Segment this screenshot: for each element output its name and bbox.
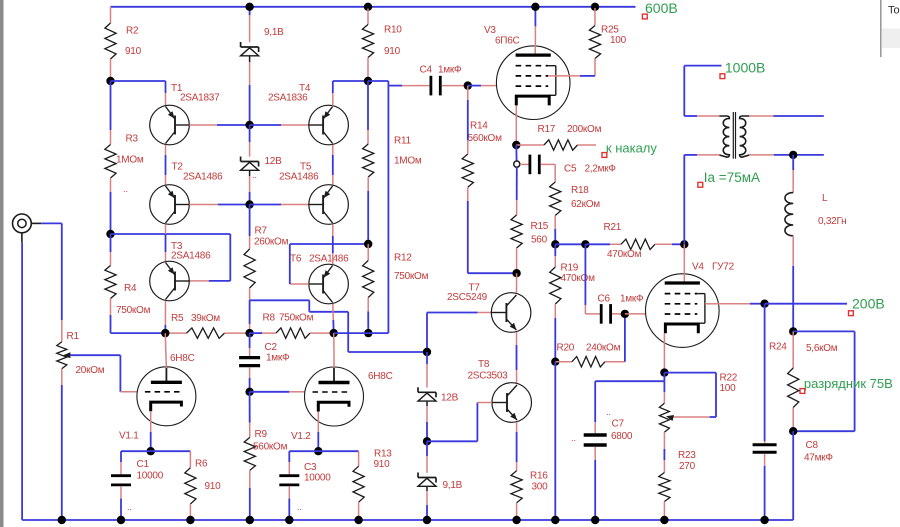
wire R23 bottom (663, 502, 665, 521)
wire zener4 bottom (426, 486, 428, 520)
resistor R18 (550, 182, 601, 216)
wire V4 g2 (705, 303, 765, 305)
svg-text:470кОм: 470кОм (607, 249, 642, 260)
current label Ia (698, 170, 760, 187)
wire R1 bottom (61, 369, 63, 520)
power label 1000В (720, 60, 765, 79)
svg-text:6П6С: 6П6С (495, 36, 520, 47)
tube V1.1 6Н8С (119, 353, 196, 442)
capacitor C7 (584, 419, 633, 446)
wire C8 bottom (764, 454, 766, 520)
wire ring to R15 (516, 167, 518, 215)
svg-text:200В: 200В (852, 296, 885, 312)
svg-text:100: 100 (610, 35, 627, 46)
wire R7 bottom + branch (250, 288, 427, 352)
svg-text:2SA1486: 2SA1486 (171, 251, 211, 262)
node C2/R9/V1.2 grid (245, 388, 253, 396)
wire R15 bottom (516, 248, 518, 273)
svg-text:2SC5249: 2SC5249 (447, 292, 488, 303)
wire V1.2 anode lead (333, 333, 335, 368)
node T7base/zener3 (423, 348, 431, 356)
svg-text:R4: R4 (124, 283, 137, 294)
svg-text:R3: R3 (126, 134, 139, 145)
svg-text:..: .. (252, 170, 257, 180)
node rail/R25 (591, 3, 599, 11)
wire cathode to C5 node (515, 145, 517, 161)
node rail/zener1 (245, 3, 253, 11)
wire terminal to R1 col (41, 223, 62, 341)
svg-text:..: .. (606, 407, 611, 417)
wire T1 base (189, 124, 249, 126)
svg-text:R8: R8 (263, 313, 276, 324)
node V1.1 anode (161, 329, 169, 337)
svg-text:To: To (888, 5, 900, 17)
svg-text:1МОм: 1МОм (394, 156, 422, 167)
wire R25 to g2 (548, 75, 595, 77)
resistor R10 (362, 9, 402, 78)
wire V1.1 anode lead (165, 333, 166, 368)
svg-text:1мкФ: 1мкФ (620, 294, 644, 305)
svg-text:560кОм: 560кОм (253, 442, 288, 453)
svg-text:2SA1486: 2SA1486 (279, 172, 319, 183)
wire C4 right lead (442, 85, 468, 87)
svg-text:R7: R7 (255, 226, 268, 237)
svg-text:R18: R18 (571, 185, 589, 196)
wire V4 grid lead (625, 313, 646, 315)
node zener2/T2T5 bases/R7 (245, 200, 253, 208)
resistor R24 (769, 331, 838, 431)
svg-text:R21: R21 (604, 222, 622, 233)
svg-text:750кОм: 750кОм (394, 271, 429, 282)
wire pot R22 top (663, 381, 665, 403)
svg-text:V3: V3 (484, 25, 496, 36)
svg-text:R22: R22 (720, 373, 738, 384)
wire anode row right (334, 332, 369, 334)
zener D3 12В (418, 387, 459, 403)
wire R14 top (467, 86, 469, 154)
wire V4 cathode lead (663, 333, 665, 372)
svg-text:910: 910 (125, 46, 142, 57)
wire cathode to C1 (121, 451, 151, 474)
svg-text:560кОм: 560кОм (468, 133, 503, 144)
wire R9 bottom (249, 470, 251, 520)
wire V1.2 grid (250, 391, 305, 393)
resistor R8 (263, 313, 314, 339)
side panel border (880, 0, 900, 57)
resistor R13 (353, 449, 392, 503)
wire R3 upper (110, 81, 112, 145)
svg-text:910: 910 (384, 46, 401, 57)
resistor R21 (585, 222, 672, 260)
node V1.1 cathode (147, 447, 155, 455)
svg-text:2,2мкФ: 2,2мкФ (585, 164, 617, 175)
wire R2 top lead (110, 7, 112, 23)
svg-text:47мкФ: 47мкФ (804, 453, 833, 464)
node zener1/zener2/T1T4 bases (245, 121, 253, 129)
wire C4 riser (368, 81, 388, 333)
inductor L 0.32Гн (785, 193, 846, 236)
svg-text:R13: R13 (374, 449, 392, 460)
wire T5 base left (250, 204, 309, 206)
wire zener3 top (426, 352, 428, 388)
node V4 anode/transformer (680, 240, 688, 248)
resistor R9 (244, 429, 287, 470)
wire to 200V (765, 303, 847, 305)
svg-text:C8: C8 (806, 440, 819, 451)
wire R1 wiper to V1.1 grid (70, 355, 137, 392)
svg-text:750кОм: 750кОм (279, 313, 314, 324)
wire R20 riser (624, 314, 626, 362)
wire T1-T2 (165, 145, 167, 185)
svg-text:2SA1836: 2SA1836 (268, 93, 308, 104)
wire T3 base net (111, 234, 231, 281)
svg-text:1мкФ: 1мкФ (438, 65, 462, 76)
wire R14 bottom to T7 (468, 187, 517, 273)
wire T8 emitter (516, 422, 518, 471)
resistor R14 (462, 121, 502, 188)
svg-text:T8: T8 (478, 359, 490, 370)
wire R11 top (367, 81, 369, 144)
svg-text:910: 910 (205, 481, 222, 492)
potentiometer R22 (659, 373, 737, 433)
tube V3 6П6С (484, 25, 570, 120)
svg-text:750кОм: 750кОм (116, 305, 151, 316)
wire R24 to rail (792, 431, 794, 520)
wire R18 bottom (554, 216, 556, 245)
svg-text:R10: R10 (384, 25, 402, 36)
node C4/R14/V3grid (464, 81, 472, 89)
node R3/R4/T3-base (106, 230, 114, 238)
wire R2-R3 node (110, 59, 112, 77)
svg-text:6800: 6800 (611, 431, 633, 442)
wire T4 collector top (333, 81, 368, 106)
svg-text:12В: 12В (441, 393, 459, 404)
wire V3 grid (468, 85, 497, 87)
wire T4-T5 (332, 145, 334, 185)
transistor T8 (468, 359, 532, 422)
node R12/anode row (364, 329, 372, 337)
svg-text:300: 300 (532, 482, 549, 493)
resistor R20 (555, 343, 625, 367)
svg-text:R25: R25 (601, 25, 619, 36)
wire C6 left (585, 244, 600, 314)
svg-text:R6: R6 (195, 459, 208, 470)
svg-text:..: .. (297, 502, 302, 512)
wire R19 bottom (554, 304, 556, 362)
wire zener2 bottom (249, 170, 251, 204)
svg-text:20кОм: 20кОм (76, 365, 105, 376)
wire T6 to anode node (332, 304, 335, 333)
node R18/R19 (551, 240, 559, 248)
svg-text:C6: C6 (598, 294, 611, 305)
resistor R11 (363, 136, 422, 178)
wire R8 left lead (250, 332, 276, 334)
wire zener3 bottom (426, 401, 428, 441)
wire R19 top (554, 244, 556, 267)
wire R19R20 to rail (554, 362, 556, 520)
svg-text:1мкФ: 1мкФ (266, 353, 290, 364)
wire row to C6 node (555, 243, 585, 245)
wire T6 base (290, 244, 368, 284)
wire C6 right (612, 313, 625, 315)
svg-text:L: L (822, 193, 828, 204)
power label 200В (849, 296, 885, 316)
svg-text:470кОм: 470кОм (561, 273, 596, 284)
svg-text:6Н8С: 6Н8С (170, 353, 195, 364)
resistor R15 (511, 215, 549, 248)
wire cathode to R13 (318, 451, 358, 466)
node rail/R10 (364, 3, 372, 11)
capacitor C6 (598, 294, 645, 324)
capacitor C3 (279, 462, 331, 485)
capacitor C2 (239, 342, 290, 366)
svg-text:9,1В: 9,1В (264, 27, 284, 38)
svg-text:R20: R20 (557, 343, 575, 354)
svg-text:270: 270 (679, 461, 696, 472)
wire R21 right (672, 243, 684, 245)
wire R4 lower (111, 299, 166, 334)
node secondary/L (789, 151, 797, 159)
wire zener4 top (426, 441, 428, 473)
tube V4 ГУ72 (646, 262, 735, 348)
resistor R25 (589, 8, 626, 76)
svg-text:C1: C1 (137, 459, 150, 470)
node V4 cathode (660, 368, 668, 376)
svg-text:C4: C4 (420, 65, 433, 76)
wire zener1 top lead (249, 7, 251, 42)
node R19/R20 (551, 358, 559, 366)
wire terminal pin right (31, 222, 41, 224)
zener D4 9,1В (418, 473, 463, 492)
svg-text:к накалу: к накалу (606, 141, 657, 156)
svg-text:10000: 10000 (137, 471, 164, 482)
transformer primary bottom wire (684, 155, 719, 244)
wire cathode to R6 (151, 451, 191, 468)
node R11/R12/T6base (364, 240, 372, 248)
svg-text:560: 560 (531, 235, 548, 246)
svg-text:R24: R24 (769, 342, 787, 353)
node C2/R7/R5/R8 (245, 329, 253, 337)
wire C3 bottom (288, 486, 290, 520)
wire R13 bottom (358, 502, 360, 520)
svg-text:разрядник 75В: разрядник 75В (804, 376, 893, 391)
transformer secondary bottom wire (749, 154, 824, 156)
zener D1 9,1В (241, 27, 285, 56)
wire bottom rail (22, 519, 793, 521)
wire T5-T6 (332, 224, 334, 264)
R22 wiper arrow (666, 415, 674, 421)
wire cathode to C3 (289, 451, 318, 474)
svg-text:R23: R23 (678, 450, 696, 461)
wire T4 base left (250, 124, 309, 126)
svg-text:ГУ72: ГУ72 (712, 262, 735, 273)
wire R6 bottom (189, 504, 191, 520)
resistor R16 (511, 471, 548, 503)
svg-text:2SA1486: 2SA1486 (183, 172, 223, 183)
wire R5-R8 mid (225, 332, 250, 334)
wire R11 bottom (367, 177, 369, 244)
svg-text:T2: T2 (172, 162, 184, 173)
svg-text:T6: T6 (290, 254, 302, 265)
svg-text:9,1В: 9,1В (443, 480, 463, 491)
wire V4 anode lead (683, 244, 685, 273)
svg-text:C7: C7 (612, 419, 625, 430)
transistor T4 (268, 83, 348, 145)
svg-text:Ia =75мА: Ia =75мА (704, 170, 760, 185)
wire V3 anode (534, 7, 536, 47)
artifact marks (123, 170, 611, 512)
resistor R3 (105, 134, 144, 179)
R1 wiper arrow (63, 352, 70, 358)
wire R8 right lead (310, 332, 334, 334)
wire anode row (165, 332, 186, 334)
node R10/R11/T4/C4net (364, 77, 372, 85)
resistor R4 (105, 266, 151, 317)
svg-text:910: 910 (374, 459, 391, 470)
svg-text:R12: R12 (394, 253, 412, 264)
wire zener2 top lead (249, 125, 251, 157)
wire cathode loop R22 (664, 373, 716, 417)
svg-text:R5: R5 (171, 313, 184, 324)
wire top rail +600V (111, 6, 636, 8)
resistor R12 (363, 244, 429, 312)
wire R7 top lead (249, 205, 251, 250)
capacitor C1 (111, 459, 164, 485)
svg-text:R1: R1 (67, 331, 80, 342)
wire L top (792, 155, 794, 193)
capacitor C8 (753, 440, 834, 464)
razryadnik loop (793, 331, 854, 431)
wire C7 bottom (594, 447, 596, 520)
svg-text:100: 100 (720, 383, 737, 394)
wire C5 right lead (541, 164, 556, 182)
transformer secondary top wire (749, 115, 824, 117)
svg-text:1000В: 1000В (725, 60, 765, 76)
wire T2-T3 (165, 224, 167, 261)
capacitor C4 (420, 65, 463, 96)
svg-text:2SA1837: 2SA1837 (180, 93, 220, 104)
transistor T1 (150, 83, 220, 145)
svg-text:R14: R14 (470, 121, 488, 132)
window left border (0, 0, 4, 527)
wire R22-R23 (663, 432, 665, 472)
transformer T core+coils (719, 112, 749, 159)
wire L bottom (792, 236, 794, 332)
svg-text:..: .. (123, 184, 128, 194)
wire R7 to node (249, 300, 251, 333)
wire V3 cathode lead (515, 105, 517, 145)
node zener3/zener4/T8base (423, 437, 431, 445)
wire V1.2 cathode lead (317, 412, 319, 452)
wire C4 left lead (388, 85, 429, 87)
tube V1.2 6Н8С (291, 367, 393, 442)
svg-text:6Н8С: 6Н8С (368, 371, 393, 382)
svg-text:1МОм: 1МОм (116, 155, 144, 166)
wire T7 base (427, 313, 491, 353)
node R24 bottom (789, 427, 797, 435)
svg-text:240кОм: 240кОм (586, 343, 621, 354)
heater label к накалу (602, 141, 657, 158)
node V1.2 anode (330, 329, 338, 337)
svg-text:260кОм: 260кОм (254, 237, 289, 248)
wire V1.1 cathode lead (150, 411, 152, 451)
node L/R24/razryadnik (789, 327, 797, 335)
node V3 cathode/R17/R15 (512, 141, 520, 149)
wire C8 top (764, 304, 766, 444)
wire C1 bottom (120, 486, 122, 520)
wire T7-T8 (516, 332, 518, 383)
node g2/C8/200V (760, 300, 768, 308)
svg-text:600В: 600В (645, 0, 678, 16)
svg-text:62кОм: 62кОм (571, 199, 600, 210)
wire T7 collector (516, 273, 518, 293)
svg-text:C2: C2 (265, 342, 278, 353)
resistor R23 (659, 450, 696, 502)
wire R4 upper (110, 234, 112, 266)
node ring C5 (514, 161, 520, 167)
svg-text:V4: V4 (692, 262, 704, 273)
svg-text:2SC3503: 2SC3503 (468, 371, 509, 382)
svg-text:R9: R9 (255, 429, 268, 440)
svg-text:..: .. (571, 433, 576, 443)
transformer primary 1000V wire (684, 66, 721, 116)
svg-text:10000: 10000 (304, 473, 331, 484)
wire R3 lower (110, 178, 112, 234)
svg-text:200кОм: 200кОм (567, 124, 602, 135)
svg-text:C3: C3 (304, 462, 317, 473)
transistor T6 (290, 254, 349, 304)
svg-text:R16: R16 (530, 471, 548, 482)
node C6/R20/V4 grid (621, 310, 629, 318)
zener D2 12В (241, 156, 283, 170)
wire C7 branch (595, 373, 664, 434)
node V1.2 cathode (314, 447, 322, 455)
svg-text:R2: R2 (126, 26, 139, 37)
svg-text:C5: C5 (564, 164, 577, 175)
wire R16 bottom (516, 503, 518, 520)
svg-text:2SA1486: 2SA1486 (309, 254, 349, 265)
wire C2 bottom (249, 367, 251, 392)
resistor R17 (516, 124, 601, 150)
svg-text:0,32Гн: 0,32Гн (818, 216, 846, 227)
transistor T3 (150, 241, 211, 301)
wire to T1 collector (111, 81, 166, 106)
node rail/V3 anode (531, 3, 539, 11)
svg-text:R17: R17 (538, 124, 556, 135)
svg-text:R11: R11 (394, 136, 412, 147)
svg-text:V1.2: V1.2 (291, 431, 311, 442)
wire T8 base (427, 403, 492, 442)
wire C5 left lead (520, 163, 529, 165)
svg-text:39кОм: 39кОм (191, 313, 220, 324)
label разрядник (800, 376, 893, 393)
wire R9 top (249, 392, 251, 438)
svg-text:R15: R15 (531, 221, 549, 232)
resistor R7 (244, 226, 289, 289)
resistor R2 (105, 23, 142, 59)
node R2/R3/T1 (106, 77, 114, 85)
svg-text:..: .. (127, 502, 132, 512)
rail junction nodes (58, 516, 769, 524)
wire terminal pin down (21, 233, 23, 520)
transistor T2 (150, 162, 223, 225)
svg-text:12В: 12В (265, 156, 283, 167)
resistor R19 (550, 263, 595, 305)
capacitor C5 (530, 155, 617, 175)
power label 600В (642, 0, 677, 19)
wire zener1 bottom (249, 56, 251, 125)
transistor T7 (447, 283, 531, 333)
